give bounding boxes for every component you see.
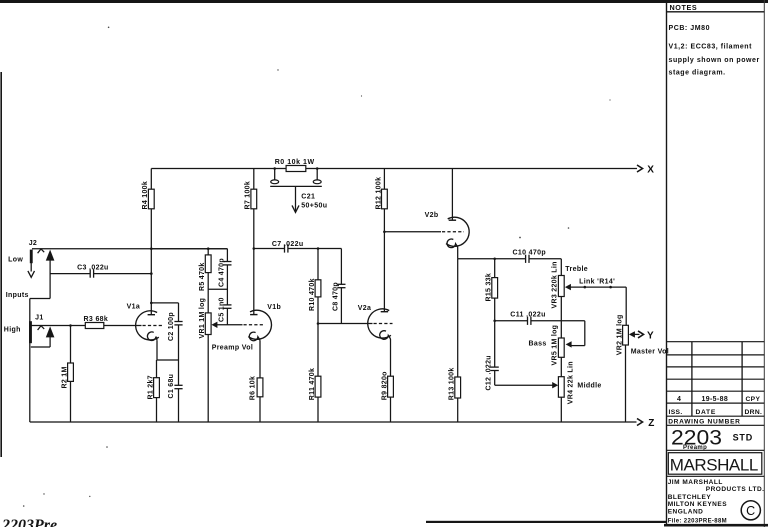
svg-text:PCB: JM80: PCB: JM80 [669, 25, 711, 32]
svg-text:R15 33k: R15 33k [486, 273, 493, 302]
svg-text:supply shown on power: supply shown on power [669, 57, 760, 64]
svg-text:R4 100k: R4 100k [142, 181, 149, 210]
svg-text:stage diagram.: stage diagram. [669, 69, 726, 76]
svg-text:ENGLAND: ENGLAND [668, 509, 704, 516]
svg-text:C10 470p: C10 470p [513, 250, 547, 257]
svg-text:STD: STD [733, 433, 753, 443]
svg-text:VR4 22k Lin: VR4 22k Lin [567, 361, 574, 404]
svg-text:MARSHALL: MARSHALL [670, 455, 759, 474]
svg-text:Z: Z [648, 418, 654, 429]
svg-text:Bass: Bass [529, 341, 547, 348]
svg-text:C4 470p: C4 470p [218, 258, 225, 287]
svg-text:VR5 1M log: VR5 1M log [551, 325, 558, 366]
svg-text:V1a: V1a [127, 303, 141, 310]
svg-text:VR1 1M log: VR1 1M log [199, 298, 206, 339]
svg-text:MILTON KEYNES: MILTON KEYNES [668, 501, 728, 508]
svg-text:Y: Y [647, 330, 654, 341]
svg-text:R11 470k: R11 470k [309, 368, 316, 400]
svg-text:R12 100k: R12 100k [375, 177, 382, 210]
svg-text:VR2 1M log: VR2 1M log [616, 314, 623, 355]
svg-text:C21: C21 [301, 193, 315, 200]
svg-text:C11 .022u: C11 .022u [510, 311, 545, 318]
svg-text:ISS.: ISS. [669, 409, 683, 416]
svg-text:Low: Low [8, 256, 23, 263]
svg-text:C7 .022u: C7 .022u [272, 241, 304, 248]
svg-text:V1b: V1b [267, 304, 281, 311]
svg-text:R6 10k: R6 10k [250, 376, 257, 400]
svg-text:50+50u: 50+50u [301, 203, 327, 210]
svg-text:C: C [746, 504, 755, 518]
svg-text:DRAWING NUMBER: DRAWING NUMBER [668, 418, 740, 425]
svg-text:R2 1M: R2 1M [61, 366, 68, 388]
svg-text:V1,2: ECC83, filament: V1,2: ECC83, filament [669, 44, 753, 51]
svg-text:Middle: Middle [577, 382, 601, 389]
svg-text:V2a: V2a [358, 305, 372, 312]
svg-text:R3 68k: R3 68k [84, 316, 109, 323]
svg-text:C3 .022u: C3 .022u [77, 264, 109, 271]
svg-text:R13 100k: R13 100k [449, 367, 456, 400]
svg-text:High: High [4, 326, 21, 333]
svg-text:R7 100k: R7 100k [245, 181, 252, 210]
svg-text:JIM MARSHALL: JIM MARSHALL [668, 479, 723, 486]
svg-text:R0 10k 1W: R0 10k 1W [275, 159, 315, 166]
svg-text:NOTES: NOTES [670, 3, 698, 12]
svg-text:X: X [647, 164, 654, 175]
svg-text:C8 470p: C8 470p [332, 282, 339, 311]
svg-text:C12 .022u: C12 .022u [486, 355, 493, 390]
svg-text:DRN.: DRN. [745, 409, 763, 416]
svg-text:Preamp Vol: Preamp Vol [212, 344, 254, 351]
svg-text:J1: J1 [35, 314, 44, 321]
svg-text:R5 470k: R5 470k [199, 262, 206, 291]
svg-text:C2 100p: C2 100p [168, 312, 175, 341]
svg-text:PRODUCTS LTD.: PRODUCTS LTD. [706, 486, 765, 493]
svg-text:2203Pre: 2203Pre [1, 517, 57, 527]
svg-text:C1 68u: C1 68u [168, 374, 175, 399]
svg-text:R10 470k: R10 470k [309, 278, 316, 311]
svg-text:R1 2k7: R1 2k7 [147, 375, 154, 399]
svg-text:J2: J2 [29, 240, 38, 247]
svg-text:BLETCHLEY: BLETCHLEY [668, 494, 712, 501]
svg-text:File: 2203PRE-88M: File: 2203PRE-88M [668, 519, 727, 525]
svg-text:V2b: V2b [425, 212, 439, 219]
svg-text:CPY: CPY [746, 396, 761, 403]
svg-text:4: 4 [677, 396, 681, 403]
svg-text:Master Vol: Master Vol [631, 348, 669, 355]
svg-text:VR3 220k Lin: VR3 220k Lin [551, 261, 558, 308]
svg-text:DATE: DATE [696, 409, 717, 416]
svg-text:R9 820o: R9 820o [381, 371, 388, 400]
svg-text:Preamp: Preamp [683, 445, 707, 451]
svg-text:Treble: Treble [565, 266, 588, 273]
svg-text:C5 1n0: C5 1n0 [218, 297, 225, 322]
svg-text:19-5-88: 19-5-88 [702, 396, 729, 403]
svg-text:Inputs: Inputs [6, 292, 29, 299]
svg-text:Link 'R14': Link 'R14' [579, 278, 615, 285]
